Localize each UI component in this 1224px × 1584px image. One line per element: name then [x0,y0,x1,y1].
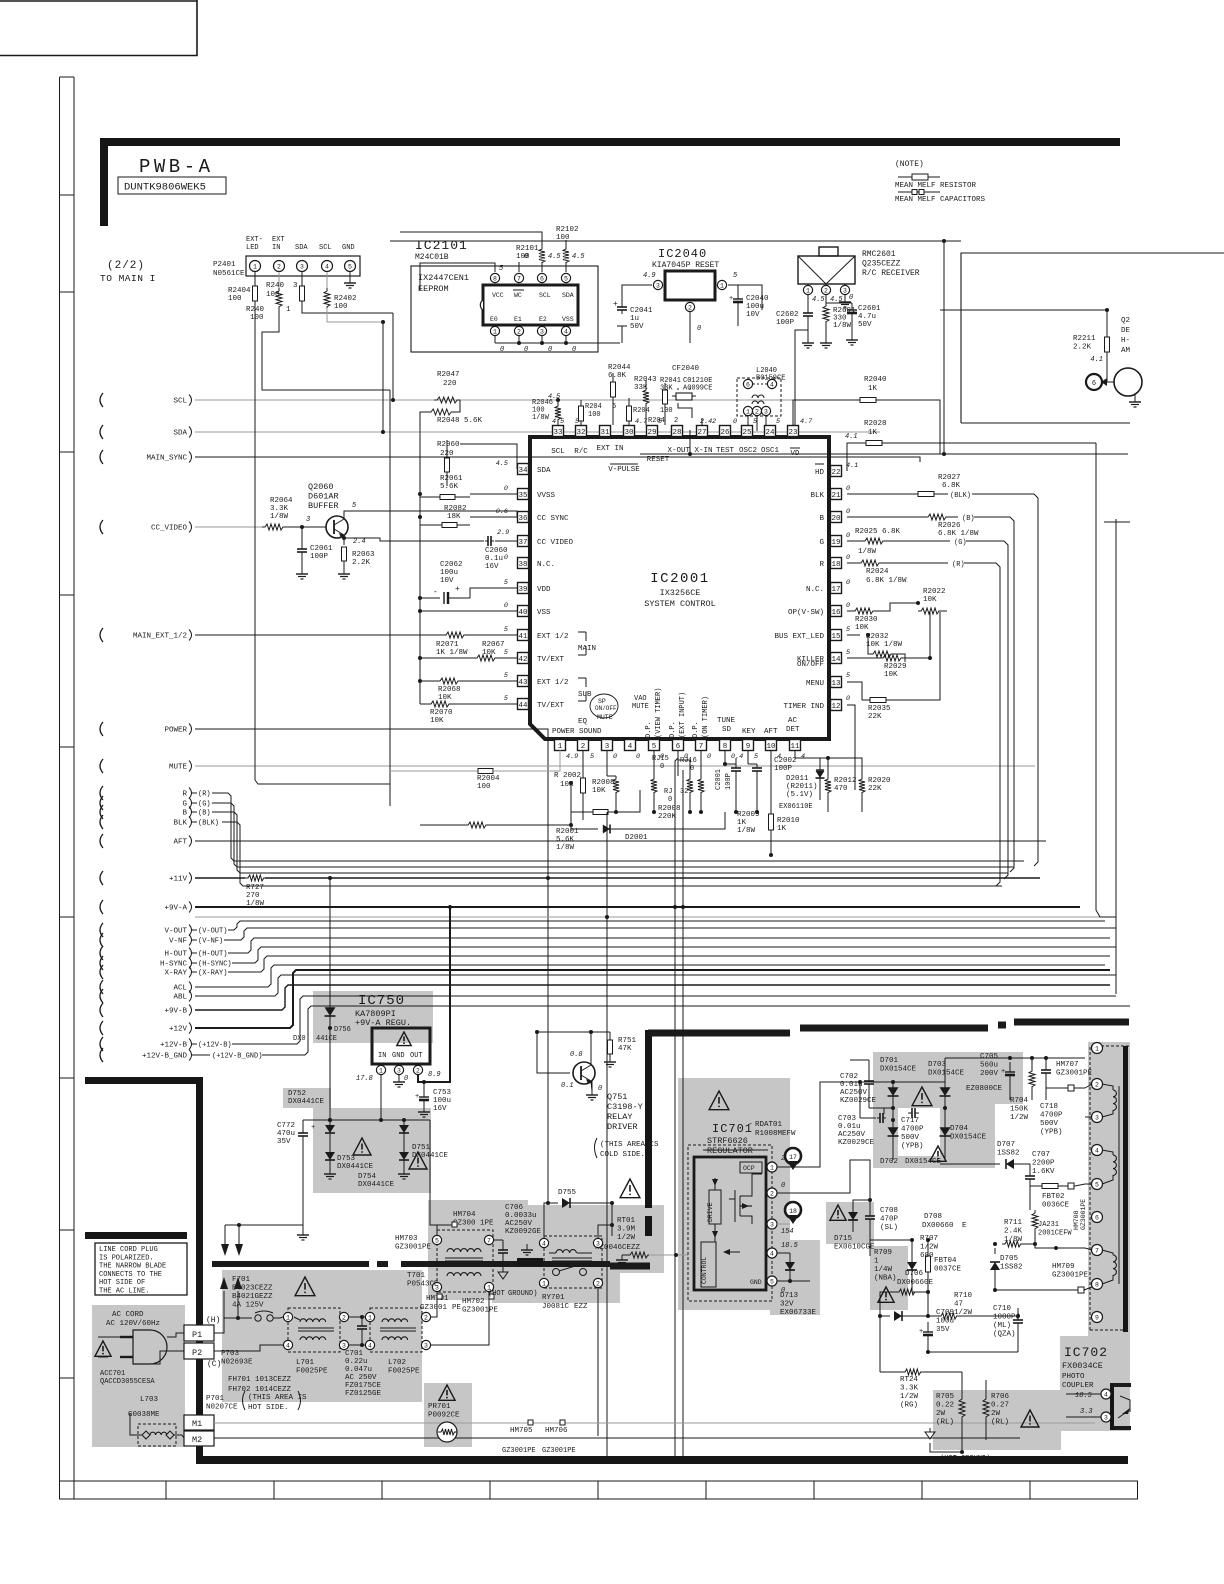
resistor R2029 10K [847,657,880,659]
svg-text:50V: 50V [630,323,644,331]
svg-text:EXT: EXT [272,236,285,244]
IC2001 pin 13 [831,677,842,688]
svg-text:15: 15 [831,633,841,641]
connector stub MAIN_EXT_1/2 [100,628,103,642]
svg-text:1: 1 [542,1280,546,1287]
svg-text:10K: 10K [592,787,606,795]
svg-text:0: 0 [733,418,737,426]
svg-text:N0207CE: N0207CE [206,1404,238,1412]
svg-text:5: 5 [564,275,568,282]
wire MUTE bus [195,765,1035,767]
gray patch F701/L701/L702 region [222,1270,422,1402]
svg-text:E2: E2 [539,316,547,323]
T701 primary coil [447,1249,481,1252]
IC2040 body [665,271,715,300]
svg-text:0: 0 [572,346,576,354]
svg-text:R240: R240 [266,282,285,290]
resistor R2008 220K [571,783,593,812]
bus junction dots [673,905,677,909]
svg-text:0.4: 0.4 [731,753,743,761]
IC2101 pin 1 [490,326,499,335]
svg-text:1K: 1K [868,385,878,393]
resistor R2026 6.8K 1/8W to (B) [847,516,925,518]
svg-text:0: 0 [504,602,508,610]
svg-text:6: 6 [1095,1214,1099,1221]
svg-text:C772: C772 [277,1122,295,1130]
svg-text:P1: P1 [192,1330,202,1340]
IC2001 body [530,437,829,739]
svg-text:100u: 100u [440,569,458,577]
svg-text:0.047u: 0.047u [345,1366,372,1374]
svg-text:D706: D706 [905,1270,924,1278]
isolation barrier top horizontal dashed [648,1030,790,1037]
connector stub +12V [100,1021,103,1035]
RMC2601 pin 2 [821,285,830,294]
IC2040 pin 3 [653,280,662,289]
svg-text:5: 5 [770,1278,774,1285]
svg-text:441CE: 441CE [316,1035,337,1043]
svg-text:D705: D705 [1000,1255,1019,1263]
svg-text:10K: 10K [482,649,496,657]
svg-text:2: 2 [1095,1081,1099,1088]
secondary winding 2-3 [1113,1090,1116,1110]
IC2001 pin 4 [625,740,636,751]
svg-text:SYSTEM CONTROL: SYSTEM CONTROL [644,599,715,609]
svg-text:OCP: OCP [743,1165,755,1172]
svg-text:+12V: +12V [169,1026,188,1034]
svg-text:(R): (R) [952,561,965,569]
svg-text:12: 12 [831,703,840,711]
wire RY701 pin3 to D755 node [598,1225,612,1238]
svg-text:4700P: 4700P [1040,1112,1063,1120]
secondary pin 3 [1092,1112,1103,1123]
svg-text:100: 100 [228,295,242,303]
svg-text:MEAN MELF RESISTOR: MEAN MELF RESISTOR [895,182,977,190]
svg-text:1: 1 [746,408,750,415]
isolation barrier horizontal bar upper-left [85,1077,203,1084]
svg-text:EX06733E: EX06733E [780,1309,817,1317]
wire IC2040 pin2 ground bus [621,326,623,343]
wire +11V bus with resistor R727 [195,877,245,879]
svg-text:D703: D703 [928,1061,947,1069]
isolation barrier bar above line-filter [212,1261,369,1267]
IC2001 MAIN bracket [578,631,586,633]
svg-text:10K: 10K [884,671,898,679]
svg-text:AC 250V: AC 250V [345,1374,377,1382]
resistor R2403 100 [301,272,303,286]
svg-text:2.4: 2.4 [353,538,366,546]
L701 coils [300,1319,326,1322]
svg-text:C707: C707 [1032,1151,1050,1159]
svg-text:H-: H- [1121,337,1130,345]
connector stub G [100,796,103,810]
svg-text:REGULATOR: REGULATOR [707,1146,753,1156]
svg-text:8: 8 [723,743,728,751]
svg-text:R2020: R2020 [868,777,891,785]
resistor R2032 10K 1/8W [847,634,860,636]
wire SDA vertical x393 [392,313,394,400]
wire vertical pin7 line down [682,812,684,1456]
svg-text:J0081C: J0081C [542,1303,570,1311]
svg-text:MAIN_SYNC: MAIN_SYNC [146,455,187,463]
svg-text:+: + [729,295,733,303]
title part number box DUNTK9806WEK5 [118,177,226,194]
svg-text:HM702: HM702 [462,1298,485,1306]
IC2001 pin 15 [831,630,842,641]
svg-text:24: 24 [765,429,775,437]
svg-text:CONNECTS TO THE: CONNECTS TO THE [99,1271,162,1279]
resistor R2101 100 [539,246,545,266]
svg-text:HM705: HM705 [510,1427,533,1435]
svg-text:R2004: R2004 [477,775,500,783]
IC2001 pin 10 [766,740,777,751]
svg-text:D715: D715 [834,1235,853,1243]
svg-text:470P: 470P [880,1216,899,1224]
wire AC to P1 P2 [167,1333,184,1337]
svg-text:ON/OFF: ON/OFF [595,705,617,712]
RY701 pin 1 [539,1278,548,1287]
svg-text:AFT: AFT [173,839,187,847]
svg-text:BLK: BLK [173,820,187,828]
svg-text:470u: 470u [277,1130,295,1138]
svg-text:HM709: HM709 [1052,1263,1075,1271]
svg-text:+: + [455,585,460,594]
svg-text:(V-NF): (V-NF) [198,938,223,946]
svg-text:SD: SD [722,726,732,734]
svg-text:R2048 5.6K: R2048 5.6K [437,417,483,425]
svg-text:C2040: C2040 [746,295,769,303]
svg-text:GZ300 1PE: GZ300 1PE [453,1220,494,1228]
svg-text:1/2W: 1/2W [1010,1114,1029,1122]
svg-text:+: + [613,300,618,309]
svg-text:T701: T701 [407,1272,426,1280]
svg-text:D.P.: D.P. [645,721,653,738]
ground at P2401 pin 5 [349,272,351,283]
warning triangle R709 [878,1287,894,1302]
svg-text:DE: DE [1121,327,1131,335]
svg-text:C2602: C2602 [776,311,799,319]
svg-text:0: 0 [636,753,640,761]
wire vertical pin3 line down [606,812,608,1456]
diode D756 DX0441CE [329,878,331,1008]
svg-text:C2002: C2002 [774,757,797,765]
svg-text:SCL: SCL [539,292,551,299]
svg-text:4: 4 [542,1240,546,1247]
svg-text:GZ3001: GZ3001 [420,1304,448,1312]
svg-text:30: 30 [624,429,634,437]
svg-text:R2025 6.8K: R2025 6.8K [855,528,901,536]
wire pins 8-9 caps [724,750,726,764]
svg-text:X-RAY: X-RAY [164,970,187,978]
svg-text:16: 16 [831,609,841,617]
line filter L701 F0025PE dashed box [288,1308,340,1352]
svg-text:R709: R709 [874,1249,892,1257]
svg-text:RJ16: RJ16 [680,757,697,765]
svg-text:1K 1/8W: 1K 1/8W [436,649,468,657]
svg-text:0: 0 [598,1085,602,1093]
svg-text:IX2447CEN1: IX2447CEN1 [418,273,469,283]
svg-text:+12V-B: +12V-B [160,1042,188,1050]
svg-text:+12V-B_GND: +12V-B_GND [142,1053,188,1061]
sheet thick border left bar [100,138,108,226]
svg-text:D.P.: D.P. [692,721,700,738]
svg-text:D708: D708 [924,1213,942,1221]
svg-text:R2027: R2027 [938,474,961,482]
svg-text:C2041: C2041 [630,307,653,315]
svg-text:22K: 22K [868,713,882,721]
diode D2001 [571,812,598,829]
svg-text:1: 1 [368,1314,372,1321]
wire secondary verticals [859,1082,861,1118]
svg-text:18.5: 18.5 [781,1242,799,1250]
svg-text:GND: GND [392,1052,405,1060]
gray patch C706/T701 region [428,1200,528,1300]
wire MUTE to Q751 base [537,1032,570,1073]
IC2001 pin 19 [831,536,842,547]
svg-text:DX0441CE: DX0441CE [288,1098,325,1106]
svg-text:3: 3 [300,263,304,270]
gray patch warning IC701 top [700,1086,740,1122]
svg-text:D702: D702 [880,1158,898,1166]
T701 secondary coil [447,1273,481,1276]
svg-text:1: 1 [558,743,563,751]
svg-text:2: 2 [712,418,716,426]
svg-text:TV/EXT: TV/EXT [537,702,565,710]
capacitor C2040 100u 10V [737,285,739,295]
svg-text:L703: L703 [140,1396,159,1404]
svg-text:V-NF: V-NF [169,938,187,946]
svg-text:AC250V: AC250V [840,1089,868,1097]
svg-text:RESET: RESET [647,456,670,464]
wire P2 to L701 pin4 [214,1345,283,1351]
svg-text:4.5: 4.5 [496,460,508,468]
wire reset output [738,285,762,310]
connector P2401 pin 1 [250,261,261,272]
svg-text:R2211: R2211 [1073,335,1096,343]
svg-text:3: 3 [843,287,847,294]
svg-text:AFT: AFT [764,728,778,736]
IC2001 pin 23 [788,426,799,437]
svg-text:EXT 1/2: EXT 1/2 [537,633,569,641]
connector stub BLK [100,815,103,829]
transistor Q2201 (partial at edge) [1114,368,1142,396]
IC2001 pin 37 [518,536,529,547]
melf resistor legend symbol [898,176,940,178]
svg-text:28: 28 [672,429,681,437]
svg-text:GROUND): GROUND) [508,1290,537,1298]
IC2001 pin 14 [831,653,842,664]
svg-text:R240: R240 [246,306,265,314]
svg-text:FBT02: FBT02 [1042,1193,1065,1201]
svg-text:2: 2 [342,1314,346,1321]
svg-text:(H): (H) [206,1316,220,1325]
svg-text:2: 2 [517,328,521,335]
svg-text:C2001: C2001 [715,769,723,790]
wire IC701 pin2 right [790,1160,850,1193]
svg-text:(VIEW TIMER): (VIEW TIMER) [655,688,663,738]
svg-text:3: 3 [540,328,544,335]
gray patch AC cord region [92,1305,185,1447]
svg-text:R2028: R2028 [864,420,887,428]
svg-text:EX06110E: EX06110E [779,803,813,811]
line filter L702 F0025PE dashed box [370,1308,422,1352]
IC2001 pin 42 [518,653,529,664]
svg-text:500V: 500V [901,1134,920,1142]
svg-text:F0025PE: F0025PE [296,1368,328,1376]
svg-text:10: 10 [766,743,776,751]
connector stub AFT [100,834,103,848]
resistor R2024 6.8K 1/8W to (R) [847,562,858,564]
svg-text:C2061: C2061 [310,545,333,553]
terminal P1 [184,1325,214,1341]
svg-text:R2008: R2008 [658,805,681,813]
svg-text:L701: L701 [296,1359,315,1367]
svg-text:R/C: R/C [574,448,588,456]
svg-text:CF2040: CF2040 [672,365,700,373]
IC701 OCP box [740,1162,762,1173]
wire SCL vertical x383 [382,322,384,432]
svg-text:0: 0 [548,346,552,354]
svg-text:R2068: R2068 [438,686,461,694]
IC2001 pin 39 [518,583,529,594]
resistor R2030 10K [847,610,852,612]
capacitor C753 100u 16V [423,1082,425,1094]
svg-text:C706: C706 [505,1204,524,1212]
wire pin11 to C2002 area [795,750,828,760]
RMC2601 pin 3 [840,285,849,294]
wire V-NF to bus [234,928,1116,940]
gray patch IC750 region [313,991,433,1043]
IC2001 pin 17 [831,583,842,594]
capacitor C717 4700P 500V (YPB) [898,1108,940,1156]
svg-text:10K 1/8W: 10K 1/8W [866,641,903,649]
svg-text:17: 17 [789,1154,797,1161]
terminal M2 [184,1431,214,1446]
svg-text:0: 0 [846,579,850,587]
wire snubber [868,1060,870,1078]
svg-text:3: 3 [770,1221,774,1228]
svg-text:0: 0 [524,346,528,354]
sheet thick border bottom bar [196,1456,1128,1464]
svg-text:M2: M2 [192,1435,202,1445]
svg-text:8: 8 [493,275,497,282]
page frame bottom ruler strip [60,1481,1138,1499]
svg-text:2: 2 [596,1280,600,1287]
svg-text:6: 6 [746,381,750,388]
svg-text:2: 2 [277,263,281,270]
svg-text:5: 5 [1095,1181,1099,1188]
IC701 pin 3 [767,1219,777,1229]
svg-text:100P: 100P [776,319,795,327]
svg-text:0: 0 [668,796,672,804]
svg-text:R/C RECEIVER: R/C RECEIVER [862,269,920,278]
resistor R2010 1K [769,814,774,830]
svg-text:IX3256CE: IX3256CE [660,588,701,598]
svg-text:3: 3 [596,1240,600,1247]
svg-text:EXT 1/2: EXT 1/2 [537,679,569,687]
svg-text:6.8K: 6.8K [942,482,961,490]
svg-text:MEAN MELF CAPACITORS: MEAN MELF CAPACITORS [895,196,986,204]
wire D708 mesh [880,1292,888,1372]
svg-text:4: 4 [770,381,774,388]
wire CC_VIDEO [195,526,262,528]
svg-text:4.5: 4.5 [548,393,560,401]
svg-text:2.9: 2.9 [497,529,509,537]
svg-text:DX0441CE: DX0441CE [358,1181,395,1189]
svg-text:3: 3 [764,408,768,415]
svg-text:R727: R727 [246,884,264,892]
IC2101 EEPROM body [483,285,578,325]
wire R/C output down [795,330,808,427]
RMC2601 pin 1 [803,285,812,294]
svg-text:33: 33 [553,429,563,437]
wire to IC702 pin4 [1066,1393,1101,1395]
svg-text:0: 0 [613,753,617,761]
svg-text:IC2101: IC2101 [415,238,468,253]
wire +12V-B bus [242,996,1116,1044]
arrows up to barrier at fuse [223,1291,225,1333]
diode D704 DX0154CE [944,1120,946,1128]
IC2101 ground bus wire [495,342,620,344]
transformer T701 dashed box [437,1230,493,1292]
IC701 pin 5 [767,1276,777,1286]
svg-text:1/2W: 1/2W [900,1393,919,1401]
svg-text:C717: C717 [901,1117,919,1125]
svg-text:0.8: 0.8 [570,1051,583,1059]
IC2001 pin 21 [831,489,842,500]
svg-text:R2102: R2102 [556,226,579,234]
IC2101 pin 3 [537,326,546,335]
resistor R2020 22K [859,776,865,796]
svg-text:2: 2 [674,417,678,425]
svg-text:220: 220 [443,380,457,388]
svg-text:DX0154CE: DX0154CE [880,1066,917,1074]
secondary pin 9 [1092,1312,1103,1323]
svg-text:RMC2601: RMC2601 [862,250,896,259]
svg-text:(SL): (SL) [880,1224,898,1232]
svg-text:SCL: SCL [319,244,332,252]
svg-text:P2: P2 [192,1348,202,1358]
wire BLK to bus [226,822,1002,886]
svg-text:32V: 32V [780,1301,794,1309]
svg-text:PWB-A: PWB-A [139,156,214,178]
svg-text:35V: 35V [936,1326,950,1334]
svg-text:R2071: R2071 [436,641,459,649]
IC2101 pin 6 [537,273,546,282]
svg-text:GZ3001PE: GZ3001PE [502,1447,536,1455]
resistor R2035 22K [861,690,863,700]
resistor R2404 100 [254,272,256,286]
svg-text:1: 1 [770,1164,774,1171]
svg-text:SCL: SCL [173,398,187,406]
resistor R727 270 1/8W [245,875,267,881]
wires into pins 34-36 [460,444,517,469]
secondary pin 8 [1092,1279,1103,1290]
svg-text:GZ3001PE: GZ3001PE [1052,1272,1089,1280]
wire top right horizontal [940,309,1107,311]
svg-text:1/8W: 1/8W [737,827,756,835]
svg-text:D707: D707 [997,1141,1015,1149]
wire ABL to bus [195,975,1116,996]
svg-text:GZ3001PE: GZ3001PE [1056,1070,1093,1078]
gray patch C705 region [973,1052,1023,1104]
terminal P2 [184,1343,214,1359]
svg-text:H-SYNC: H-SYNC [160,961,188,969]
svg-text:R2067: R2067 [482,641,505,649]
svg-text:4.9: 4.9 [643,272,656,280]
svg-text:P0543CE: P0543CE [407,1281,439,1289]
svg-text:R2026: R2026 [938,522,961,530]
